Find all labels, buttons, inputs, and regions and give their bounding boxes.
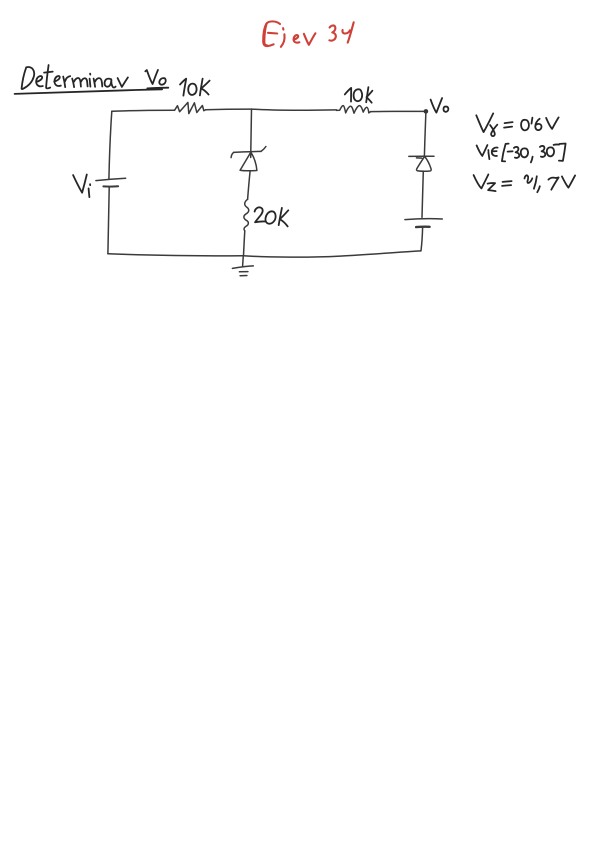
resistor R2 (10k): [337, 106, 371, 114]
zener left bend: [231, 152, 234, 157]
ground stub: [242, 256, 245, 266]
resistor R3 (20K vertical squiggle): [244, 199, 249, 231]
wire D1 to battery E: [422, 171, 423, 217]
zener diode DZ bar: [234, 151, 261, 152]
note Vgamma = 0'6V: [476, 113, 493, 132]
notes right column: [474, 113, 575, 192]
wire bottom left segment: [108, 254, 243, 256]
wire bottom right segment: [243, 251, 421, 257]
node Vo dot: [424, 109, 429, 114]
ground bar 2: [239, 271, 248, 273]
title "Ejer 34" (red): [263, 21, 354, 46]
diode D1 bar: [409, 155, 434, 157]
wire R3 to bottom: [244, 231, 245, 256]
zener triangle: [240, 152, 257, 170]
circuit wires and components: [73, 79, 448, 276]
label Vi: [73, 175, 90, 198]
label 20K (R3): [255, 207, 289, 226]
wire top-left: [112, 110, 175, 111]
battery E plate long: [405, 218, 442, 221]
label Vo: [431, 98, 449, 113]
wire zener to R3: [248, 171, 251, 199]
wire R1 to middle node: [206, 108, 252, 111]
label 10k (R2): [345, 87, 373, 103]
wire middle node to R2: [252, 109, 337, 110]
ground bar 1: [232, 266, 253, 269]
battery Vi plate short: [103, 185, 118, 187]
wire middle branch upper: [250, 109, 253, 157]
note Vi in [-30,30]: [477, 145, 488, 156]
zener right bend: [261, 147, 266, 152]
wire below battery E: [421, 228, 423, 251]
label 10K (R1): [180, 79, 210, 96]
note Vz = 4,7V: [474, 174, 489, 188]
wire below battery Vi: [108, 188, 109, 254]
battery Vi plate long: [96, 178, 126, 180]
resistor R1 (10K): [175, 102, 206, 113]
diode D1 triangle: [417, 156, 432, 171]
wire right branch upper: [424, 111, 426, 156]
wire left vertical: [109, 111, 112, 179]
battery E plate short: [416, 225, 430, 228]
ground bar 3: [240, 275, 247, 277]
wire R2 to node Vo: [371, 110, 425, 112]
heading "Determinar Vo": [15, 65, 169, 94]
